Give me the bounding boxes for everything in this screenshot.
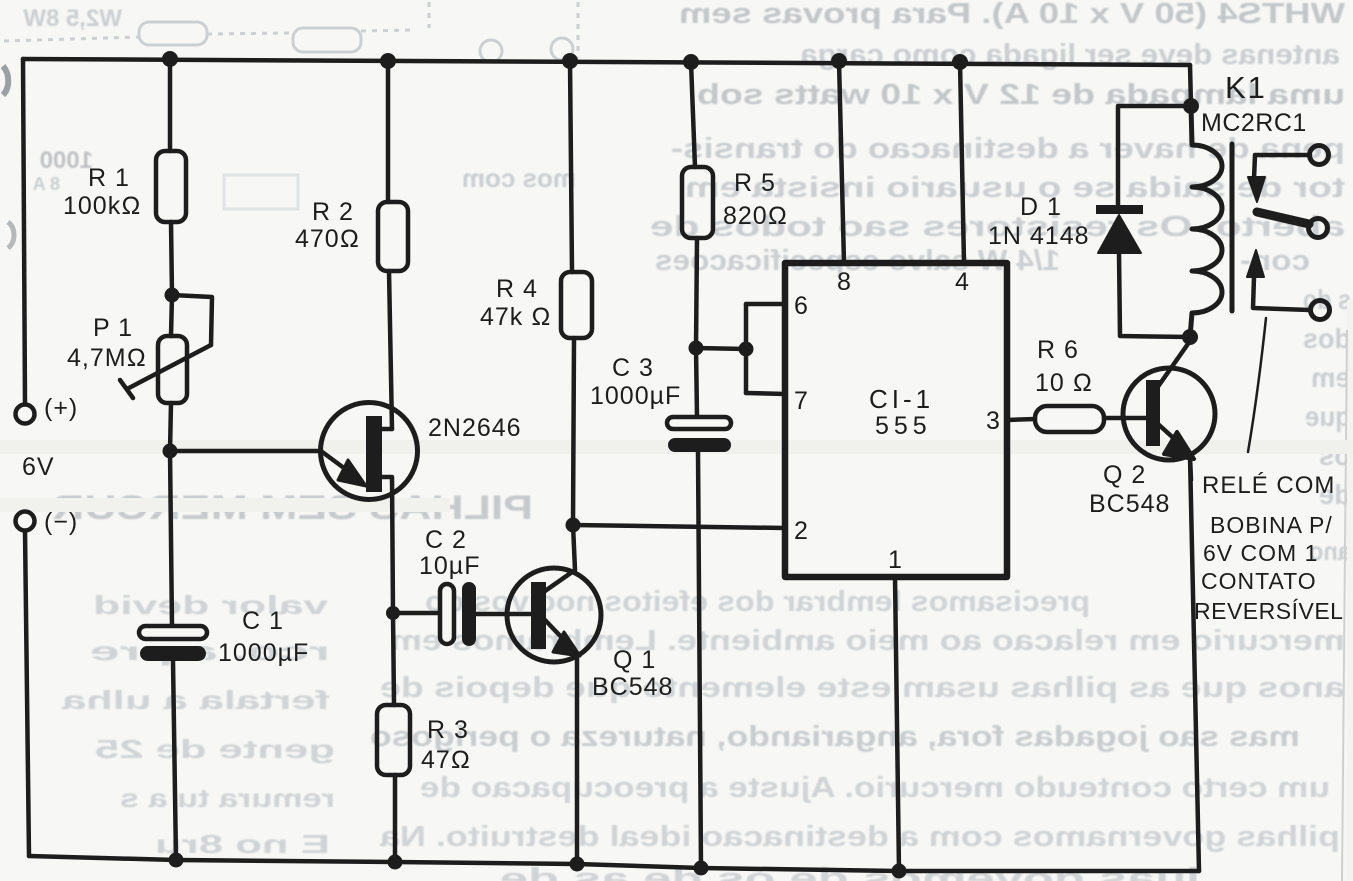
svg-text:P 1: P 1 bbox=[93, 314, 133, 342]
svg-text:C2: C2 bbox=[425, 526, 475, 554]
svg-text:820Ω: 820Ω bbox=[723, 202, 788, 230]
wire pin 3 bbox=[1007, 419, 1035, 420]
2N2646 emitter arrowhead bbox=[338, 460, 366, 486]
svg-text:7: 7 bbox=[794, 387, 808, 415]
capacitor C2 right plate bbox=[462, 582, 476, 646]
node relay top junction bbox=[1183, 98, 1199, 114]
svg-text:1: 1 bbox=[888, 546, 902, 574]
node C2 junction bbox=[386, 606, 400, 620]
relay K1 coil bbox=[1190, 106, 1222, 337]
Q1 emitter lead bbox=[545, 620, 567, 643]
2N2646 emitter lead bbox=[321, 451, 352, 474]
svg-text:um certo conteudo mercurio. Aj: um certo conteudo mercurio. Ajuste a pre… bbox=[420, 772, 1330, 804]
Q2 collector lead bbox=[1157, 341, 1190, 388]
capacitor C2 left plate bbox=[440, 584, 454, 644]
wire bottom rail bbox=[29, 856, 1199, 871]
wire pin 6 bbox=[746, 302, 785, 307]
transistor Q1 circle bbox=[507, 568, 601, 662]
svg-text:8: 8 bbox=[837, 268, 851, 296]
svg-text:(−): (−) bbox=[44, 508, 78, 536]
svg-text:8 A: 8 A bbox=[33, 174, 60, 194]
diode D1 cathode bar bbox=[1096, 205, 1143, 214]
svg-text:BC548: BC548 bbox=[1089, 490, 1170, 518]
svg-text:47Ω: 47Ω bbox=[421, 746, 471, 774]
svg-text:C 1: C 1 bbox=[242, 607, 284, 635]
node top rail R5 bbox=[683, 54, 699, 70]
svg-text:gente de 25: gente de 25 bbox=[95, 734, 335, 764]
node top rail R2 bbox=[380, 53, 396, 69]
Q1 collector lead bbox=[545, 525, 575, 591]
svg-text:555: 555 bbox=[875, 412, 932, 440]
wire pin2 bbox=[573, 525, 785, 528]
wire Q1 emitter to bottom rail bbox=[575, 655, 580, 864]
node C3 bottom bbox=[694, 861, 709, 876]
relay common terminal bbox=[1309, 219, 1328, 238]
svg-text:WHTS4 (50 V x 10 A). Para prov: WHTS4 (50 V x 10 A). Para provas sem bbox=[679, 0, 1345, 30]
svg-text:BC548: BC548 bbox=[592, 673, 673, 701]
relay NO arrowhead bbox=[1247, 250, 1264, 277]
wire Q2 emitter down bbox=[1190, 456, 1191, 480]
terminal (-) bbox=[16, 512, 35, 531]
svg-text:1000: 1000 bbox=[40, 147, 93, 174]
node top rail R1 bbox=[162, 51, 178, 67]
svg-text:RELÉ COM: RELÉ COM bbox=[1202, 472, 1335, 499]
wire C3 to bottom rail bbox=[698, 452, 701, 868]
capacitor C1 top plate bbox=[139, 626, 207, 639]
P1 wiper arrow diagonal bbox=[127, 345, 211, 389]
svg-text:6: 6 bbox=[794, 292, 808, 320]
svg-text:MC2RC1: MC2RC1 bbox=[1201, 109, 1307, 137]
wire R6 to Q2 base bbox=[1104, 416, 1147, 421]
wire right edge up to Q2 emitter bbox=[1190, 456, 1199, 871]
svg-text:R 6: R 6 bbox=[1037, 336, 1079, 364]
svg-text:mas sao jogadas fora, angarian: mas sao jogadas fora, angariando, nature… bbox=[370, 721, 1300, 753]
relay armature bbox=[1257, 212, 1309, 224]
svg-text:R 2: R 2 bbox=[312, 198, 354, 226]
svg-text:6V COM 1: 6V COM 1 bbox=[1203, 540, 1318, 566]
node C3 junction bbox=[689, 341, 704, 356]
svg-text:100kΩ: 100kΩ bbox=[63, 192, 141, 220]
Q2 emitter lead bbox=[1158, 424, 1180, 444]
svg-text:3: 3 bbox=[986, 407, 1000, 435]
svg-text:C 3: C 3 bbox=[612, 354, 654, 382]
svg-text:R 3: R 3 bbox=[427, 716, 469, 744]
node top rail R4 bbox=[562, 53, 578, 69]
wire R1 to P1 junction bbox=[171, 222, 172, 295]
svg-text:1N 4148: 1N 4148 bbox=[988, 222, 1090, 250]
wire top rail to R2 bbox=[386, 61, 391, 202]
wire left (+) lead bbox=[23, 59, 25, 404]
ghost schematic top-left (bleed-through) bbox=[4, 2, 578, 209]
relay NO terminal bbox=[1311, 301, 1330, 320]
svg-text:1000µF: 1000µF bbox=[218, 639, 309, 667]
wire P1 wiper return bbox=[172, 295, 212, 345]
relay actuator dashed curve bbox=[1248, 318, 1266, 452]
wire emitter row bbox=[170, 449, 321, 454]
svg-text:Q 2: Q 2 bbox=[1103, 461, 1146, 489]
svg-text:470Ω: 470Ω bbox=[295, 225, 360, 253]
resistor R1 bbox=[156, 151, 186, 222]
resistor R4 bbox=[561, 272, 592, 338]
op IC CI-1 555 box bbox=[785, 263, 1007, 577]
node relay bottom junction bbox=[1182, 329, 1198, 345]
relay NC contact lead bbox=[1254, 155, 1310, 179]
2N2646 base bar bbox=[366, 416, 382, 492]
svg-text:(+): (+) bbox=[44, 394, 78, 422]
capacitor C3 top plate bbox=[667, 417, 731, 429]
wire down to C1 bbox=[170, 451, 172, 627]
svg-text:4,7MΩ: 4,7MΩ bbox=[67, 344, 147, 372]
svg-text:BOBINA P/: BOBINA P/ bbox=[1210, 512, 1333, 538]
svg-text:valor devid: valor devid bbox=[93, 590, 328, 620]
node top rail pin4 bbox=[952, 54, 968, 70]
wire top rail bbox=[23, 59, 1190, 65]
svg-text:remura tu a s: remura tu a s bbox=[120, 783, 335, 813]
terminal (+) bbox=[16, 405, 35, 424]
svg-text:1000µF: 1000µF bbox=[590, 382, 681, 410]
resistor R6 bbox=[1035, 406, 1104, 432]
relay NC arrowhead bbox=[1248, 177, 1265, 202]
Q1 base bar bbox=[531, 582, 546, 649]
relay core bar bbox=[1230, 144, 1235, 311]
svg-text:10µF: 10µF bbox=[419, 552, 480, 580]
svg-text:E no 8ru: E no 8ru bbox=[155, 829, 330, 859]
wire pins 6-7 bracket bbox=[744, 304, 749, 393]
node Q1 emitter bottom bbox=[570, 857, 585, 872]
wire R2 to UJT base2 bbox=[389, 271, 392, 429]
node pin1 bottom bbox=[892, 864, 907, 879]
dark page-edge mark left bbox=[3, 66, 8, 95]
wire R4 to pin2 junction bbox=[573, 338, 574, 525]
node pin2 junction bbox=[566, 518, 581, 533]
wire junction down to C3 bbox=[696, 348, 697, 417]
svg-text:tor de saida se o usuario insi: tor de saida se o usuario insista em bbox=[685, 172, 1345, 204]
Q2 emitter arrowhead bbox=[1164, 432, 1194, 459]
node R3 bottom bbox=[388, 855, 403, 870]
wire pin 1 bbox=[895, 577, 899, 871]
node top rail pin8 bbox=[831, 53, 847, 69]
capacitor C1 bottom plate bbox=[140, 646, 206, 661]
svg-text:2N2646: 2N2646 bbox=[428, 414, 522, 442]
svg-text:6V: 6V bbox=[22, 453, 55, 481]
svg-text:dos: dos bbox=[1303, 323, 1351, 354]
svg-text:anos que as pilhas usam este e: anos que as pilhas usam este elemento qu… bbox=[380, 672, 1345, 704]
node C1 bottom bbox=[169, 853, 184, 868]
P1 wiper tail tick bbox=[120, 380, 133, 398]
wire P1 bottom bbox=[170, 403, 171, 451]
2N2646 base1 hook bbox=[381, 477, 393, 613]
wire junction to C2 bbox=[393, 611, 441, 616]
svg-text:que: que bbox=[1305, 401, 1351, 432]
wire C2 to Q1 base bbox=[476, 612, 532, 617]
node bracket junction bbox=[739, 342, 754, 357]
svg-text:pena de haver a destinacao do: pena de haver a destinacao do transis- bbox=[671, 133, 1345, 165]
svg-text:2: 2 bbox=[794, 517, 808, 545]
wire junction to bracket bbox=[696, 348, 746, 349]
svg-text:CI-1: CI-1 bbox=[869, 384, 934, 414]
2N2646 base2 hook bbox=[381, 427, 392, 432]
svg-text:R 1: R 1 bbox=[88, 164, 130, 192]
relay NO contact lead bbox=[1253, 277, 1310, 310]
svg-text:CONTATO: CONTATO bbox=[1201, 568, 1317, 594]
wire pin 7 bbox=[746, 393, 785, 394]
Q2 base bar bbox=[1146, 380, 1160, 446]
wire top rail to R4 bbox=[570, 61, 572, 272]
wire pin 4 bbox=[960, 62, 964, 263]
wire junction down to R3 bbox=[393, 613, 394, 705]
Q1 emitter arrowhead bbox=[553, 632, 580, 656]
transistor Q 2N2646 circle bbox=[321, 403, 418, 500]
svg-text:4: 4 bbox=[955, 268, 969, 296]
relay NC terminal bbox=[1310, 146, 1329, 165]
node emitter row junction bbox=[163, 444, 178, 459]
potentiometer P1 bbox=[158, 336, 187, 403]
svg-text:em: em bbox=[1311, 362, 1351, 393]
capacitor C3 bottom plate bbox=[668, 438, 731, 452]
svg-text:REVERSÍVEL: REVERSÍVEL bbox=[1194, 598, 1343, 624]
svg-text:K1: K1 bbox=[1225, 70, 1267, 105]
wire D1 bottom branch bbox=[1119, 253, 1190, 337]
svg-text:Q 1: Q 1 bbox=[613, 646, 656, 674]
wire R5 to C3 junction bbox=[696, 238, 697, 348]
wire pin 8 bbox=[839, 61, 844, 263]
svg-text:10 Ω: 10 Ω bbox=[1035, 369, 1093, 397]
resistor R2 bbox=[378, 202, 408, 271]
svg-text:47k Ω: 47k Ω bbox=[480, 303, 551, 331]
svg-text:R 4: R 4 bbox=[496, 275, 538, 303]
svg-text:mos com: mos com bbox=[462, 163, 576, 193]
wire top rail to R5 bbox=[691, 62, 695, 167]
wire C1 to bottom rail bbox=[173, 661, 176, 860]
node P1 wiper junction bbox=[165, 288, 180, 303]
wire R3 to bottom rail bbox=[393, 775, 398, 862]
svg-text:W2,5 8W: W2,5 8W bbox=[23, 5, 122, 32]
svg-text:R 5: R 5 bbox=[734, 169, 776, 197]
wire top rail corner to relay bbox=[1190, 65, 1191, 106]
resistor R5 bbox=[682, 167, 713, 238]
transistor Q2 circle bbox=[1123, 368, 1215, 460]
wire top rail to R1 bbox=[168, 59, 173, 151]
wire D1 top branch bbox=[1118, 106, 1191, 206]
wire junction to P1 bbox=[171, 295, 172, 336]
svg-text:fertala a ulha: fertala a ulha bbox=[61, 685, 330, 715]
resistor R3 bbox=[377, 705, 410, 775]
wire (-) lead down bbox=[25, 531, 29, 856]
diode D1 triangle bbox=[1098, 215, 1141, 253]
svg-text:D 1: D 1 bbox=[1020, 193, 1062, 221]
